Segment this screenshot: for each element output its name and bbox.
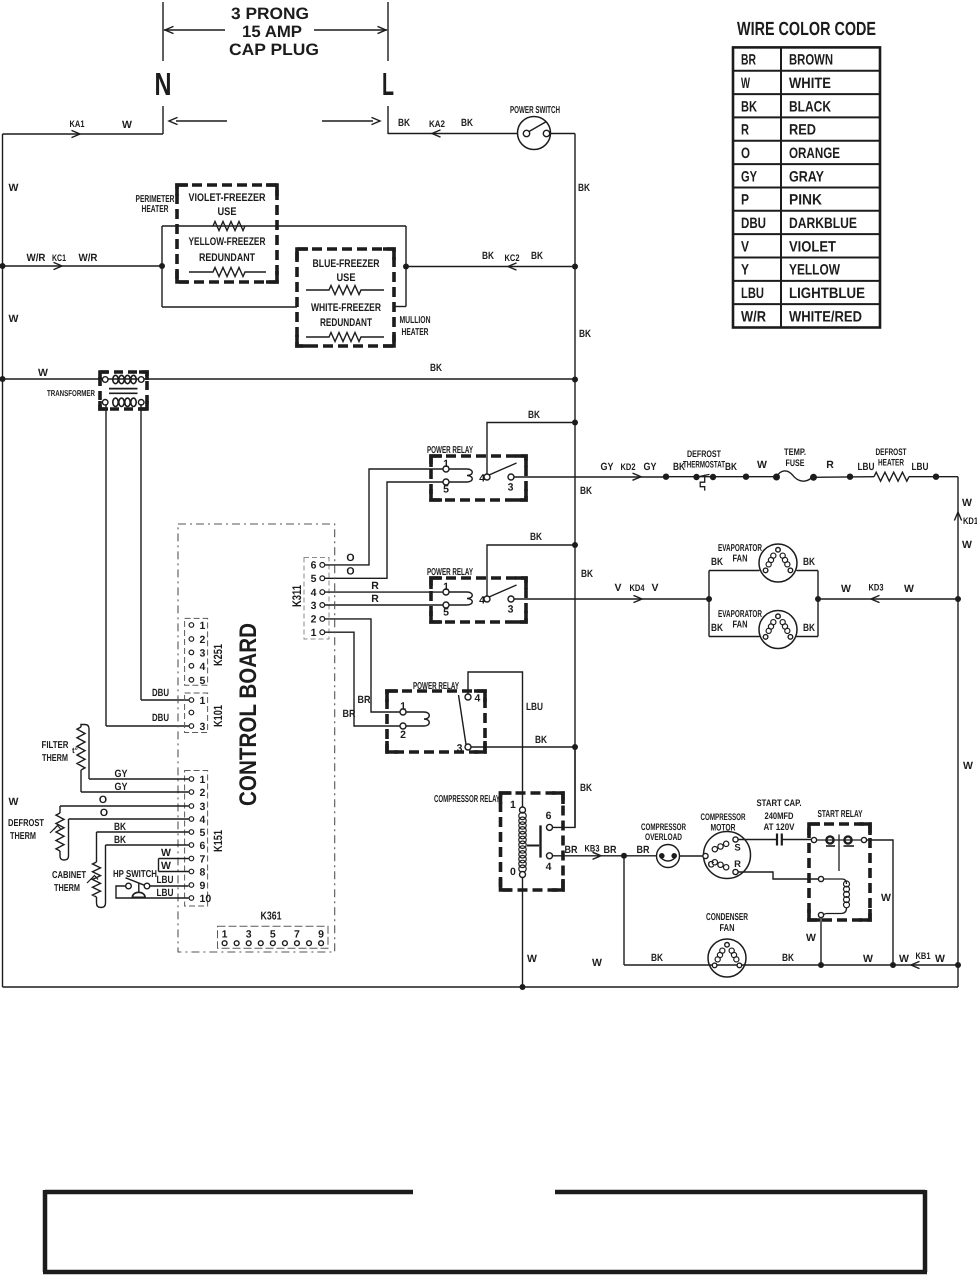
label O (99, 794, 107, 806)
svg-text:TEMP.: TEMP. (784, 447, 806, 458)
svg-text:BK: BK (528, 409, 540, 421)
resistor perimeter heater redundant element (189, 268, 266, 277)
svg-text:GY: GY (601, 461, 614, 473)
wire O K151 pin3 to defrost therm (60, 805, 189, 807)
compressor relay box (501, 793, 564, 890)
svg-text:W: W (592, 957, 602, 969)
connector K151 pin 3 (189, 801, 205, 813)
wire KA1 neutral W from left rail to N (3, 130, 164, 137)
svg-text:W: W (963, 760, 973, 772)
junction left rail transformer line (0, 376, 6, 382)
svg-text:KA1: KA1 (70, 119, 86, 130)
svg-text:GY: GY (115, 781, 128, 793)
label BR (637, 844, 650, 856)
wire K311 pin3 R to relay2 pin5 (325, 604, 443, 606)
label DBU (152, 687, 169, 699)
connector K251 pin 2 (189, 634, 205, 646)
resistor mullion heater redundant element (306, 333, 384, 342)
connector K151 box (185, 771, 208, 907)
label CABINET THERM (52, 870, 86, 894)
svg-text:Y: Y (741, 262, 749, 279)
connector K251 box (185, 618, 208, 685)
svg-text:2: 2 (311, 614, 317, 626)
label POWER RELAY (413, 681, 459, 692)
connector K361 pins (222, 929, 324, 946)
label TRANSFORMER (47, 388, 95, 398)
svg-text:W: W (899, 953, 909, 965)
svg-text:BR: BR (741, 52, 756, 69)
svg-text:L: L (382, 66, 394, 102)
power relay 1 contact arm (489, 463, 517, 475)
wire condenser fan line (624, 964, 958, 966)
svg-text:FAN: FAN (733, 554, 748, 565)
arrow KD1 up (954, 512, 977, 527)
svg-text:BK: BK (579, 328, 591, 340)
svg-text:R: R (826, 459, 834, 471)
junction BK vertical / relay3 output (572, 744, 578, 750)
label KA2 (429, 119, 445, 130)
wire BK KC2 to main vertical (406, 263, 575, 270)
svg-text:6: 6 (200, 840, 206, 852)
label HP SWITCH (113, 869, 157, 880)
svg-text:CONDENSER: CONDENSER (706, 912, 749, 923)
svg-text:W: W (881, 892, 891, 904)
evaporator fan motor 2 (759, 611, 797, 649)
svg-text:GY: GY (644, 461, 657, 473)
svg-text:BK: BK (580, 485, 592, 497)
svg-text:KD4: KD4 (630, 583, 646, 594)
svg-text:KD1: KD1 (963, 516, 977, 527)
label R (371, 580, 379, 592)
svg-text:K151: K151 (211, 830, 225, 852)
transformer T1 (100, 372, 147, 409)
svg-text:LBU: LBU (741, 285, 764, 302)
wire GY K151 pin2 to filter therm (81, 791, 189, 793)
svg-text:CABINET: CABINET (52, 870, 86, 881)
connector K151 pin 2 (189, 787, 205, 799)
wire K311 pin1 BR to relay3 pin2 (325, 632, 400, 726)
svg-text:FAN: FAN (720, 923, 735, 934)
svg-text:GY: GY (741, 168, 757, 185)
svg-text:CONTROL BOARD: CONTROL BOARD (235, 623, 262, 806)
compressor relay contact (527, 825, 541, 857)
svg-text:1: 1 (443, 581, 449, 593)
svg-text:HEATER: HEATER (402, 327, 430, 338)
svg-text:3: 3 (200, 801, 206, 813)
label KA1 (70, 119, 86, 130)
label BLUE-FREEZER USE (313, 258, 380, 284)
svg-text:BR: BR (343, 708, 356, 720)
label W (806, 932, 816, 944)
svg-text:BK: BK (725, 461, 737, 473)
wire relay1 output to defrost circuit (514, 473, 666, 480)
connector K311 pin 6 (311, 560, 325, 572)
svg-text:BK: BK (461, 117, 473, 129)
label O (100, 807, 108, 819)
svg-text:4: 4 (200, 814, 206, 826)
svg-text:KD3: KD3 (869, 583, 884, 594)
connector K151 pin 5 (189, 827, 205, 839)
connector K151 pin 10 (189, 893, 211, 905)
thermistor cabinet therm (93, 832, 106, 908)
connector K311 pin 3 (311, 600, 325, 612)
svg-text:DBU: DBU (152, 687, 169, 699)
label W (161, 860, 171, 872)
svg-text:1: 1 (222, 929, 228, 941)
svg-text:POWER SWITCH: POWER SWITCH (510, 105, 560, 116)
power relay 2 coil (446, 592, 472, 605)
power relay 1 pin 5 (443, 479, 449, 496)
svg-text:BK: BK (535, 734, 547, 746)
wire start relay coil to condenser line (820, 918, 822, 965)
svg-text:6: 6 (311, 560, 317, 572)
wire start cap to start relay (782, 839, 812, 841)
label V (651, 582, 658, 594)
svg-text:W/R: W/R (27, 252, 46, 264)
svg-text:9: 9 (318, 929, 324, 941)
wire W jumper K151 pin8 (159, 859, 189, 872)
svg-text:WHITE: WHITE (789, 75, 831, 92)
svg-text:O: O (741, 145, 750, 162)
svg-text:DARKBLUE: DARKBLUE (789, 215, 857, 232)
start capacitor C1 240MFD (757, 798, 802, 846)
label GY (115, 768, 128, 780)
svg-text:DEFROST: DEFROST (8, 818, 44, 829)
wire compressor S terminal to start cap (738, 839, 777, 841)
power relay 1 pin 1 (443, 458, 449, 472)
svg-text:FILTER: FILTER (42, 740, 70, 751)
start relay coil (824, 879, 850, 915)
label BK (430, 362, 442, 374)
connector K151 pin 6 (189, 840, 205, 852)
label LBU (912, 461, 929, 473)
power switch S1 (510, 105, 560, 150)
label W (935, 953, 945, 965)
HP switch (126, 878, 150, 898)
compressor relay pin 1 (510, 799, 526, 813)
label LBU (157, 887, 174, 899)
label BK (482, 250, 494, 262)
svg-text:240MFD: 240MFD (765, 811, 794, 822)
svg-text:BK: BK (531, 250, 543, 262)
svg-text:KA2: KA2 (429, 119, 445, 130)
svg-text:R: R (734, 859, 741, 870)
label PERIMETER HEATER (136, 194, 176, 215)
svg-text:K361: K361 (261, 911, 282, 923)
svg-text:3: 3 (508, 482, 514, 494)
svg-text:7: 7 (200, 854, 206, 866)
power relay 3 pin 1 (400, 701, 406, 716)
label t deg arrow (87, 876, 98, 884)
svg-text:O: O (99, 794, 107, 806)
label W/R (27, 252, 46, 264)
perimeter heater box (177, 185, 277, 282)
wire arrow into L (322, 117, 380, 124)
wire power switch to BK main vertical (550, 133, 575, 135)
wire K311 pin6 O to relay1 pin1 (325, 469, 443, 565)
svg-text:15 AMP: 15 AMP (242, 23, 302, 41)
svg-text:COMPRESSOR RELAY: COMPRESSOR RELAY (434, 794, 500, 805)
svg-text:5: 5 (270, 929, 276, 941)
svg-text:4: 4 (479, 595, 485, 607)
junction BR / condenser fan branch (621, 853, 627, 859)
svg-text:R: R (371, 593, 379, 605)
svg-text:YELLOW-FREEZER: YELLOW-FREEZER (189, 236, 266, 248)
control board dashed outline (178, 524, 335, 952)
power relay 1 coil (446, 469, 472, 482)
wire K311 pin5 O to relay1 pin5 (325, 482, 443, 578)
label W (963, 760, 973, 772)
svg-text:BR: BR (604, 844, 617, 856)
svg-text:2: 2 (200, 787, 206, 799)
svg-text:REDUNDANT: REDUNDANT (199, 252, 255, 264)
label W (161, 847, 171, 859)
wire right rail lower (957, 965, 959, 987)
junction defrost line terminal (933, 474, 939, 480)
svg-text:N: N (155, 66, 172, 102)
junction bottom rail / compressor relay coil return (520, 984, 526, 990)
svg-text:KC2: KC2 (505, 253, 520, 264)
svg-text:FUSE: FUSE (786, 458, 805, 469)
svg-text:WHITE/RED: WHITE/RED (789, 308, 862, 325)
svg-text:W: W (527, 953, 537, 965)
label DBU (152, 712, 169, 724)
wire LBU K151 pin10 to HP switch (116, 886, 189, 898)
svg-text:1: 1 (443, 458, 449, 470)
svg-text:1: 1 (311, 627, 317, 639)
defrost thermostat (683, 449, 725, 491)
label K151 (211, 830, 225, 852)
label COMPRESSOR RELAY (434, 794, 500, 805)
label W (592, 957, 602, 969)
svg-text:KC1: KC1 (52, 253, 67, 264)
label BK (535, 734, 547, 746)
label BK (398, 117, 410, 129)
label R (371, 593, 379, 605)
svg-text:BR: BR (565, 844, 578, 856)
svg-text:BK: BK (651, 952, 663, 964)
label 3 PRONG 15 AMP CAP PLUG (229, 5, 319, 59)
label R (826, 459, 834, 471)
power relay 2 contact arm (489, 585, 517, 597)
node heater left vertical (161, 226, 163, 307)
node N label (155, 66, 172, 102)
label BK (114, 834, 126, 846)
svg-text:BK: BK (578, 182, 590, 194)
dimension arrow 3-prong right (314, 26, 387, 33)
label BK (725, 461, 737, 473)
node L terminal prong line (387, 2, 389, 134)
svg-text:KB3: KB3 (585, 844, 600, 855)
svg-text:5: 5 (200, 675, 206, 687)
svg-text:BK: BK (782, 952, 794, 964)
svg-text:KB1: KB1 (916, 951, 932, 962)
wire mullion right stub (394, 306, 406, 308)
wire K311 pin4 R to relay2 pin1 (325, 591, 443, 593)
power relay 3 box (387, 691, 485, 752)
label K361 (261, 911, 282, 923)
svg-text:BK: BK (711, 556, 723, 568)
label W (38, 367, 48, 379)
svg-text:THERM: THERM (10, 831, 36, 842)
junction condenser line / start relay contact (890, 962, 896, 968)
svg-text:THERMOSTAT: THERMOSTAT (683, 460, 725, 471)
label BK (673, 461, 685, 473)
label VIOLET-FREEZER USE (189, 192, 266, 218)
svg-text:1: 1 (400, 701, 406, 713)
label POWER RELAY (427, 567, 473, 578)
svg-text:YELLOW: YELLOW (789, 262, 841, 279)
node N terminal prong line (162, 2, 164, 134)
svg-text:BK: BK (114, 821, 126, 833)
junction defrost line terminal (847, 474, 853, 480)
svg-text:W: W (38, 367, 48, 379)
svg-text:OVERLOAD: OVERLOAD (645, 832, 682, 843)
junction left rail W/R (0, 263, 6, 269)
svg-text:K311: K311 (290, 585, 304, 607)
svg-text:LBU: LBU (912, 461, 929, 473)
svg-text:DBU: DBU (741, 215, 766, 232)
label BK (711, 622, 723, 634)
svg-text:BK: BK (530, 531, 542, 543)
label KD2 (621, 462, 636, 473)
wire defrost line segment (666, 476, 776, 478)
wire color code table (733, 47, 880, 327)
label BK (578, 182, 590, 194)
wire defrost line segment (909, 476, 958, 478)
svg-text:GRAY: GRAY (789, 168, 824, 185)
svg-text:K101: K101 (211, 705, 225, 727)
svg-text:LIGHTBLUE: LIGHTBLUE (789, 285, 865, 302)
label BK (803, 622, 815, 634)
start relay pin right (861, 837, 866, 842)
label BK (711, 556, 723, 568)
svg-text:BROWN: BROWN (789, 52, 833, 69)
svg-text:TRANSFORMER: TRANSFORMER (47, 388, 95, 398)
svg-text:W/R: W/R (79, 252, 98, 264)
power relay 2 pin 5 (443, 602, 449, 619)
arrow KB1 (911, 951, 931, 969)
wire left rail W (2, 134, 4, 987)
svg-text:DEFROST: DEFROST (876, 447, 907, 458)
svg-text:HP SWITCH: HP SWITCH (113, 869, 157, 880)
label W (881, 892, 891, 904)
label MULLION HEATER (400, 315, 431, 338)
wire W jumper K151 pin7 (159, 858, 189, 860)
svg-text:REDUNDANT: REDUNDANT (320, 317, 372, 329)
label V (614, 582, 621, 594)
junction BK vertical / relay1 feed (572, 420, 578, 426)
label BK (579, 328, 591, 340)
label START RELAY (818, 809, 863, 820)
svg-text:THERM: THERM (42, 753, 68, 764)
svg-text:BK: BK (711, 622, 723, 634)
svg-text:EVAPORATOR: EVAPORATOR (718, 609, 762, 620)
wire BK vertical to compressor relay pin6 (552, 747, 575, 827)
label BK (531, 250, 543, 262)
label W (9, 796, 19, 808)
svg-text:COMPRESSOR: COMPRESSOR (701, 812, 746, 823)
evap fan right rail (817, 571, 819, 637)
label YELLOW-FREEZER REDUNDANT (189, 236, 266, 264)
svg-text:4: 4 (546, 861, 552, 873)
wire KA2 line L to power switch (388, 130, 518, 137)
compressor overload (657, 845, 680, 868)
label BR (358, 694, 371, 706)
label DEFROST THERM (8, 818, 44, 842)
label LBU (157, 874, 174, 886)
start relay pin coil top (818, 876, 823, 881)
label CONDENSER FAN (706, 912, 749, 934)
svg-text:W: W (741, 75, 751, 92)
svg-text:BK: BK (580, 782, 592, 794)
svg-text:7: 7 (294, 929, 300, 941)
svg-text:V: V (741, 238, 749, 255)
temp fuse F1 (773, 447, 817, 481)
svg-text:MULLION: MULLION (400, 315, 431, 326)
svg-text:DEFROST: DEFROST (687, 449, 721, 460)
svg-text:LBU: LBU (526, 701, 543, 713)
label t deg (72, 746, 78, 755)
svg-text:C: C (708, 860, 715, 871)
junction defrost line terminal (743, 474, 749, 480)
node heater right vertical (405, 226, 407, 307)
svg-text:ORANGE: ORANGE (789, 145, 840, 162)
label BK (580, 782, 592, 794)
svg-text:10: 10 (200, 893, 212, 905)
wire start relay right to condenser line (867, 840, 893, 965)
connector K151 pin 7 (189, 854, 205, 866)
label W (899, 953, 909, 965)
svg-text:W: W (9, 182, 19, 194)
label W (9, 182, 19, 194)
svg-text:THERM: THERM (54, 883, 80, 894)
connector K151 pin 4 (189, 814, 205, 826)
label BK (581, 568, 593, 580)
label BK (803, 556, 815, 568)
connector K251 pin 4 (189, 661, 205, 673)
svg-text:W: W (962, 539, 972, 551)
svg-text:3 PRONG: 3 PRONG (231, 5, 309, 23)
svg-text:1: 1 (200, 695, 206, 707)
svg-text:VIOLET-FREEZER: VIOLET-FREEZER (189, 192, 266, 204)
wire bottom rail (3, 986, 959, 988)
label W (863, 953, 873, 965)
label K311 (290, 585, 304, 607)
label K101 (211, 705, 225, 727)
label LBU (526, 701, 543, 713)
power relay 2 pin 3 (508, 596, 514, 616)
power relay 2 box (431, 578, 526, 622)
node L label (382, 66, 394, 102)
dimension arrow 3-prong left (164, 26, 225, 33)
junction condenser line / right rail (955, 962, 961, 968)
start relay contact (817, 835, 862, 872)
svg-text:W: W (841, 583, 851, 595)
wire W KD3 evap fans to right rail (818, 595, 958, 602)
svg-text:9: 9 (200, 880, 206, 892)
label KD4 (630, 583, 646, 594)
svg-text:5: 5 (443, 607, 449, 619)
svg-text:BLACK: BLACK (789, 98, 831, 115)
connector K251 pin 5 (189, 675, 205, 687)
wire transformer secondary lead to K101 pin 1 (141, 404, 189, 700)
compressor motor (703, 832, 751, 879)
defrost heater resistor (874, 447, 909, 481)
power relay 2 pin 4 (479, 595, 490, 607)
svg-text:5: 5 (200, 827, 206, 839)
start relay pin coil bottom (818, 912, 823, 917)
